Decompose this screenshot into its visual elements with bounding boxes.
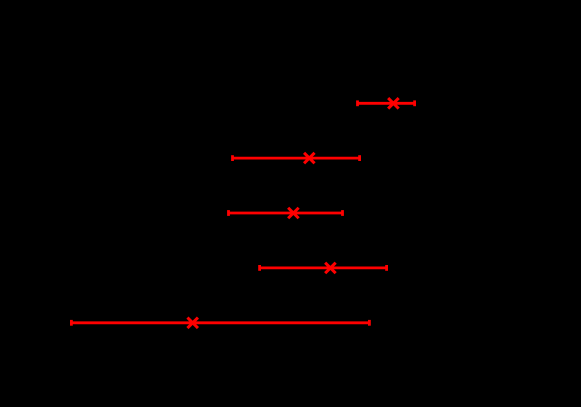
errorbar series 5 (bottom) bbox=[71, 318, 369, 329]
errorbar series 3 bbox=[229, 208, 343, 219]
errorbar series 2 bbox=[233, 153, 360, 164]
errorbar series 4 bbox=[260, 263, 387, 274]
errorbar series 1 (top) bbox=[358, 98, 415, 109]
